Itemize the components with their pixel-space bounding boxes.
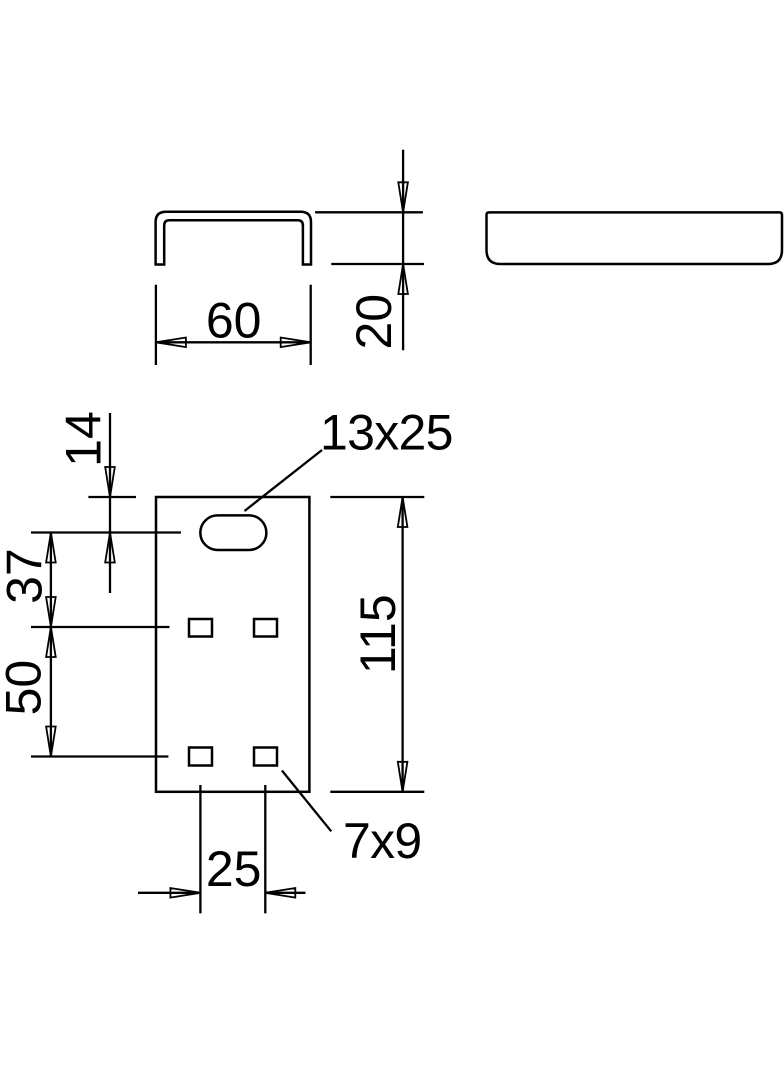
- dimension 115: top arrowhead (pointing up): [398, 497, 408, 527]
- dimension 115: top extension line: [330, 496, 424, 498]
- dimension 60: right extension line: [310, 285, 312, 365]
- dimension 115: bottom arrowhead (pointing down): [398, 762, 408, 792]
- dimension 14: extension line (plate top, left side): [88, 496, 136, 498]
- slot 13x25 (obround hole): [200, 515, 266, 550]
- hole row2 centre line: [31, 755, 168, 757]
- hole 7x9 row1 left: [189, 619, 212, 637]
- dimension 50: top arrowhead (pointing up): [46, 627, 56, 657]
- dimension 60: left extension line: [155, 285, 157, 365]
- dimension 20: lower arrowhead (pointing up): [398, 264, 408, 294]
- dimension 20: dimension line: [402, 150, 404, 351]
- dimension 14: lower arrowhead (pointing up): [105, 533, 115, 563]
- dimension 25: right arrowhead (pointing left): [265, 888, 295, 898]
- dimension 60: left arrowhead: [156, 338, 186, 348]
- channel cross-section outline (front view, top-left): [156, 212, 311, 265]
- leader line for 7x9: [282, 771, 331, 832]
- leader line for 13x25: [245, 450, 323, 511]
- dimension 20: upper arrowhead (pointing down): [398, 182, 408, 212]
- dimension chain 37/50: dimension line: [50, 533, 52, 757]
- dimension 25: left arrowhead (pointing right): [170, 888, 200, 898]
- dimension 25: left extension line: [199, 785, 201, 913]
- dimension 115: bottom extension line: [330, 791, 424, 793]
- dimension 37: bottom arrowhead (pointing down): [46, 597, 56, 627]
- dimension 14: upper arrowhead (pointing down): [105, 467, 115, 497]
- svg-text:50: 50: [0, 660, 52, 716]
- hole 7x9 row1 right: [254, 619, 277, 637]
- svg-text:7x9: 7x9: [343, 813, 422, 869]
- svg-text:14: 14: [56, 411, 112, 467]
- hole 7x9 row2 left: [189, 748, 212, 766]
- svg-text:25: 25: [206, 841, 262, 897]
- svg-text:115: 115: [350, 594, 406, 674]
- dimension 20: bottom extension line: [331, 263, 424, 265]
- dimension 25: right dimension line segment: [265, 892, 305, 894]
- svg-text:37: 37: [0, 548, 53, 604]
- hole row1 centre line: [31, 626, 170, 628]
- dimension 37: top arrowhead (pointing up): [46, 533, 56, 563]
- dimension 25: right extension line: [264, 785, 266, 913]
- dimension 60: right arrowhead: [281, 338, 311, 348]
- dimension 60: dimension line: [156, 341, 311, 343]
- svg-text:60: 60: [206, 293, 262, 349]
- svg-text:13x25: 13x25: [320, 405, 453, 461]
- dimension 20: top extension line: [315, 211, 423, 213]
- dimension 115: dimension line: [401, 497, 403, 792]
- dimension 14: dimension line: [109, 413, 111, 593]
- mounting plate outline (main view): [156, 497, 309, 792]
- slot centre line: [31, 531, 181, 533]
- svg-text:20: 20: [346, 294, 402, 350]
- dimension 25: left dimension line segment: [138, 892, 200, 894]
- hole 7x9 row2 right: [254, 748, 277, 766]
- dimension 50: bottom arrowhead (pointing down): [46, 727, 56, 757]
- channel side view (top-right): [487, 212, 783, 264]
